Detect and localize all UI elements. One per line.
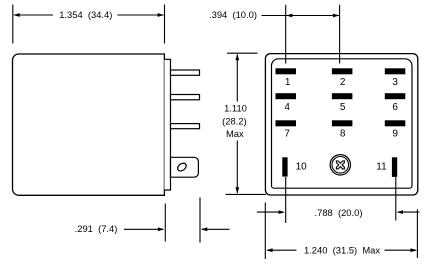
svg-text:2: 2 <box>340 77 346 88</box>
tab hole <box>176 162 188 173</box>
dimension .394 (10.0) extension line right <box>339 5 341 64</box>
dimension .291 (7.4) extension line at pin tip <box>199 198 201 243</box>
dimension .788 (20.0) left leader with arrow <box>257 210 285 214</box>
dimension 1.110 vertical line top with up arrow <box>235 54 239 102</box>
dimension 1.110 extension line top <box>227 52 258 54</box>
dimension .788 (20.0) extension line right <box>395 177 397 221</box>
pin pad 1 <box>276 68 297 74</box>
svg-text:4: 4 <box>284 102 290 113</box>
dimension 1.240 extension line right <box>416 209 418 258</box>
svg-text:.291 (7.4): .291 (7.4) <box>75 223 118 234</box>
svg-text:.394 (10.0): .394 (10.0) <box>209 9 257 20</box>
dimension 1.110 vertical line bottom with down arrow <box>235 141 239 194</box>
dimension .291 (7.4) extension line at body edge <box>164 204 166 242</box>
pin pad 5 <box>332 93 353 99</box>
dimension .291 (7.4) right leader with arrow <box>201 227 230 231</box>
svg-text:11: 11 <box>376 162 387 173</box>
dimension 1.354 (34.4) line right segment with arrow <box>118 13 165 17</box>
svg-text:(28.2): (28.2) <box>222 116 247 127</box>
dimension 1.354 (34.4) line left segment with arrow <box>13 13 53 17</box>
svg-text:1.110: 1.110 <box>224 103 247 114</box>
pin pad 6 <box>385 93 406 99</box>
dimension 1.354 (34.4) extension line left <box>12 5 14 44</box>
pin 2 (side view) <box>171 95 200 100</box>
svg-text:9: 9 <box>392 128 398 139</box>
dimension 1.354 (34.4) extension line right <box>164 5 166 44</box>
relay inner outline (bottom view) <box>272 59 413 188</box>
dimension .394 (10.0) line with arrows <box>262 14 340 18</box>
dimension .788 (20.0) extension line left <box>285 177 287 223</box>
pin pad 10 <box>282 157 287 176</box>
svg-text:.788 (20.0): .788 (20.0) <box>315 207 363 218</box>
svg-text:10: 10 <box>296 162 308 173</box>
quick-connect tab (side view) <box>171 157 199 177</box>
svg-text:8: 8 <box>340 128 346 139</box>
dimension 1.110 extension line bottom <box>226 193 267 195</box>
dimension .291 (7.4) left leader with arrow <box>124 227 164 231</box>
pin pad 9 <box>385 120 406 126</box>
svg-text:1: 1 <box>285 77 291 88</box>
svg-text:3: 3 <box>392 77 398 88</box>
pin pad 2 <box>332 68 353 74</box>
svg-text:7: 7 <box>284 128 290 139</box>
pin pad 3 <box>385 68 406 74</box>
center rivet outer circle <box>330 155 350 175</box>
dimension text 1.110 (28.2) Max <box>222 103 247 140</box>
relay body (side view) <box>13 54 165 195</box>
center rivet inner circle <box>332 157 349 174</box>
svg-text:1.354 (34.4): 1.354 (34.4) <box>59 9 112 20</box>
center rivet stake mark <box>336 161 344 169</box>
pin pad 7 <box>276 120 297 126</box>
dimension 1.240 line left segment with arrow <box>266 248 296 252</box>
pin pad 4 <box>276 93 297 99</box>
relay outer outline (bottom view) <box>265 54 417 195</box>
dimension .788 (20.0) right leader with arrow <box>397 210 420 214</box>
pin pad 11 <box>392 157 397 177</box>
dimension .394 (10.0) extension line left <box>285 5 287 64</box>
svg-text:Max: Max <box>226 128 244 139</box>
dimension 1.240 line right segment with arrow <box>385 248 417 252</box>
svg-text:1.240 (31.5) Max: 1.240 (31.5) Max <box>304 245 380 256</box>
pin 1 (side view) <box>171 70 200 75</box>
pin pad 8 <box>332 120 353 126</box>
svg-text:5: 5 <box>340 102 346 113</box>
relay base flange (side view) <box>164 59 170 190</box>
pin 3 (side view) <box>171 124 200 129</box>
dimension 1.240 extension line left <box>264 203 266 260</box>
svg-text:6: 6 <box>392 102 398 113</box>
